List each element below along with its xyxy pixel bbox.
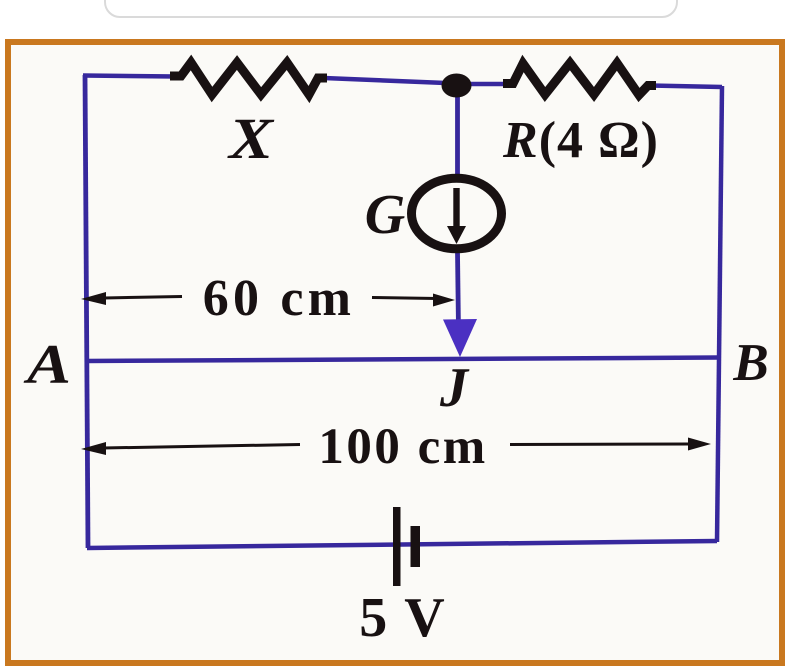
wire junction to galvanometer (455, 83, 460, 178)
galvanometer G (412, 178, 502, 249)
resistor R (503, 63, 656, 95)
dimension arrow 100cm left (103, 445, 300, 449)
wire X to junction (324, 78, 458, 84)
svg-text:G: G (365, 184, 405, 246)
wire AB potentiometer (86, 358, 719, 362)
dimension arrow 100cm right (510, 443, 690, 447)
resistor X (170, 63, 327, 95)
svg-text:J: J (439, 357, 470, 419)
top card edge (104, 0, 678, 18)
svg-text:A: A (23, 334, 71, 396)
svg-text:100 cm: 100 cm (318, 419, 487, 475)
svg-text:B: B (732, 334, 768, 392)
wire left vertical A-side (85, 75, 88, 548)
wire junction to R (456, 82, 507, 87)
wire right vertical B-side (717, 86, 722, 542)
dimension arrow 60cm right (372, 298, 437, 299)
battery plate short (411, 526, 421, 567)
node junction dot (442, 74, 472, 98)
jockey J arrow (443, 319, 477, 357)
wire bottom battery loop (87, 541, 717, 548)
svg-text:R(4 Ω): R(4 Ω) (502, 112, 659, 169)
wire top left segment (83, 76, 176, 77)
svg-text:X: X (227, 106, 275, 171)
wire galvanometer to jockey (458, 252, 459, 330)
svg-text:5 V: 5 V (359, 587, 446, 649)
battery plate long (393, 507, 401, 586)
dimension arrow 60cm left (104, 297, 182, 299)
wire R to top-right corner (650, 86, 722, 88)
svg-text:60 cm: 60 cm (203, 270, 355, 327)
